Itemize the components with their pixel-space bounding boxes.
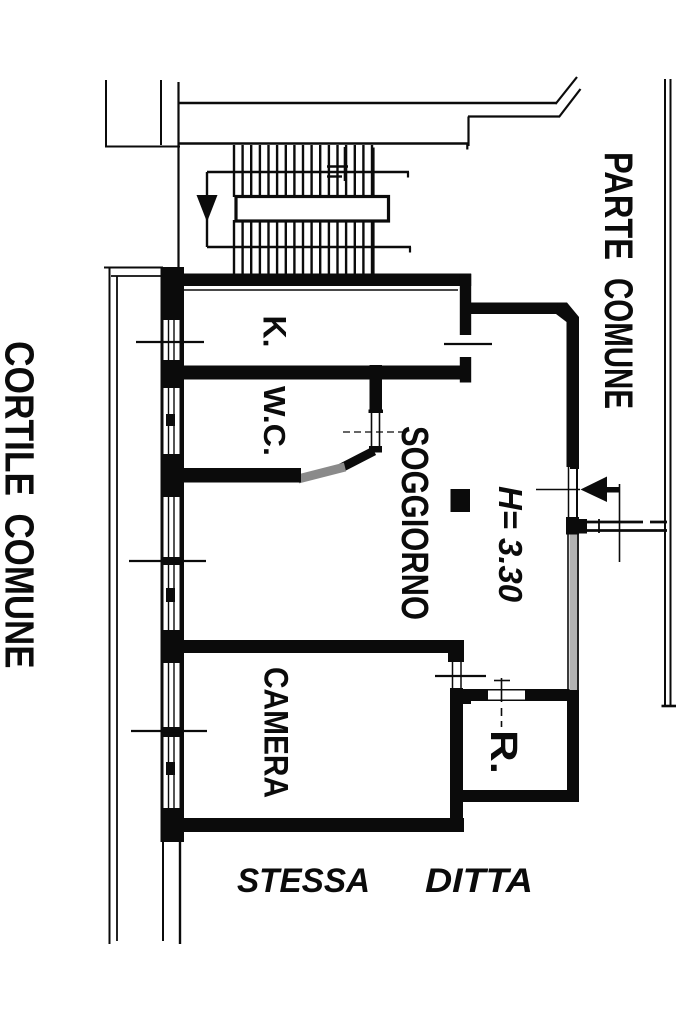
- left wall window slot wc: [164, 388, 180, 454]
- cortile boundary left inner: [116, 276, 118, 941]
- r room door line lower: [486, 699, 527, 701]
- r room right wall: [567, 690, 579, 790]
- soggiorno pillar block: [451, 489, 471, 512]
- entrance arrow stub: [607, 487, 620, 493]
- svg-text:PARTE: PARTE: [596, 152, 640, 260]
- entrance door jamb block: [566, 517, 579, 535]
- camera right wall junction block: [450, 689, 471, 704]
- corridor right wall upper: [567, 320, 580, 467]
- r room top wall left part: [455, 689, 488, 701]
- entrance axis line: [619, 484, 621, 562]
- stair direction line upper: [207, 171, 409, 173]
- left wall window slot kitchen: [164, 320, 180, 360]
- kitchen window tick: [136, 341, 204, 343]
- stair direction start mark lower bar: [327, 175, 342, 177]
- corridor wall lower line inner: [577, 535, 579, 691]
- stair direction vertical connector: [206, 172, 208, 247]
- kitchen right wall lower: [460, 357, 471, 383]
- top corridor lower wall right: [468, 115, 560, 117]
- wc door jamb top: [369, 410, 384, 414]
- wc door swing dashed line: [343, 431, 404, 433]
- svg-text:COMUNE: COMUNE: [0, 514, 43, 669]
- svg-text:SOGGIORNO: SOGGIORNO: [393, 426, 435, 620]
- left outer wall solid band: [161, 267, 185, 842]
- stairwell left wall: [177, 82, 179, 268]
- svg-text:DITTA: DITTA: [425, 862, 533, 900]
- landing south wall tick: [598, 519, 600, 533]
- stairwell top wall hook: [466, 144, 468, 150]
- soggiorno window tick: [129, 560, 206, 562]
- upper-left annex box left wall: [105, 80, 107, 147]
- cortile boundary top outer: [104, 267, 163, 269]
- parte comune boundary inner line: [670, 79, 672, 707]
- r room bottom wall: [455, 790, 579, 802]
- entrance arrowhead: [581, 477, 608, 503]
- camera right wall: [450, 688, 463, 832]
- wc door leaf line outer: [371, 413, 373, 446]
- svg-text:R.: R.: [482, 730, 524, 774]
- left wall window slot camera lower: [164, 737, 180, 808]
- stairwell right boundary: [372, 148, 374, 277]
- stair direction line lower hook: [409, 247, 411, 253]
- cortile boundary top inner: [111, 275, 163, 277]
- stairwell top wall: [178, 142, 468, 145]
- stair direction line upper hook: [407, 172, 409, 178]
- entrance door leaf line outer: [568, 466, 570, 517]
- top corridor wall step: [467, 117, 469, 147]
- r room door marker dash: [501, 708, 503, 727]
- landing south wall junction block: [579, 519, 587, 534]
- top corridor angled wall inner: [559, 89, 581, 117]
- parte comune boundary foot: [662, 705, 677, 708]
- left wall window slot soggiorno upper: [164, 497, 180, 557]
- svg-text:K.: K.: [257, 316, 293, 348]
- svg-text:H= 3.30: H= 3.30: [492, 486, 529, 603]
- apartment top wall: [161, 274, 471, 287]
- stair direction start mark vertical: [344, 147, 347, 181]
- r room top wall right part: [525, 689, 570, 701]
- svg-text:CORTILE: CORTILE: [0, 341, 43, 496]
- landing south wall lower line: [579, 529, 667, 532]
- r room door marker cross tick: [494, 680, 510, 682]
- soggiorno camera dividing wall: [170, 640, 464, 653]
- left wall window slot soggiorno lower: [164, 565, 180, 630]
- cortile boundary left outer: [109, 267, 111, 944]
- camera bottom wall: [161, 818, 464, 832]
- upper-left annex box bottom wall: [105, 146, 180, 148]
- camera window tick: [131, 730, 207, 732]
- stair direction start mark upper bar: [327, 165, 348, 167]
- top corridor angled wall outer: [556, 77, 578, 104]
- wc angled wall black part: [341, 451, 374, 468]
- parte comune boundary outer line: [664, 79, 666, 707]
- landing south wall upper line left segment: [579, 521, 643, 524]
- wc door jamb bottom: [369, 446, 382, 453]
- below camera line outer: [162, 842, 164, 941]
- soggiorno camera wall right corner: [448, 640, 464, 662]
- wc bottom wall: [168, 468, 301, 483]
- stair treads upper flight: [234, 145, 372, 197]
- stair landing band: [236, 197, 389, 222]
- stair down arrowhead: [197, 195, 218, 222]
- wc right wall stub: [370, 365, 383, 410]
- top corridor upper wall: [178, 102, 556, 104]
- corridor wall lower gray fill: [570, 535, 578, 691]
- stair direction line lower: [207, 246, 411, 248]
- entrance door leaf line inner: [576, 466, 578, 517]
- kitchen bottom wall: [170, 366, 464, 380]
- corridor corner diagonal: [556, 303, 579, 333]
- svg-text:COMUNE: COMUNE: [596, 278, 640, 409]
- below camera line inner: [179, 842, 181, 944]
- r room door marker line: [501, 678, 503, 702]
- landing south wall upper line right segment: [650, 521, 667, 524]
- upper-left annex box inner wall: [160, 80, 162, 145]
- entrance door jamb tick: [570, 462, 579, 469]
- kitchen door tick: [444, 343, 492, 345]
- camera right window glazing B: [460, 662, 462, 688]
- left wall window slot camera upper: [164, 663, 180, 727]
- wc door leaf line inner: [379, 413, 381, 446]
- wc angled wall gray part: [298, 467, 345, 479]
- stair treads lower flight: [234, 220, 372, 274]
- camera right window tick: [435, 675, 486, 677]
- svg-text:CAMERA: CAMERA: [257, 667, 295, 798]
- corridor top wall from kitchen: [471, 303, 559, 315]
- svg-text:STESSA: STESSA: [237, 862, 370, 900]
- entrance arrow line: [536, 489, 580, 491]
- camera right window glazing A: [452, 662, 454, 688]
- kitchen right wall upper: [460, 274, 471, 335]
- corridor wall lower line outer: [567, 535, 569, 691]
- r room door line upper: [486, 689, 527, 691]
- svg-text:W.C.: W.C.: [257, 386, 292, 456]
- kitchen top inner line: [183, 289, 458, 291]
